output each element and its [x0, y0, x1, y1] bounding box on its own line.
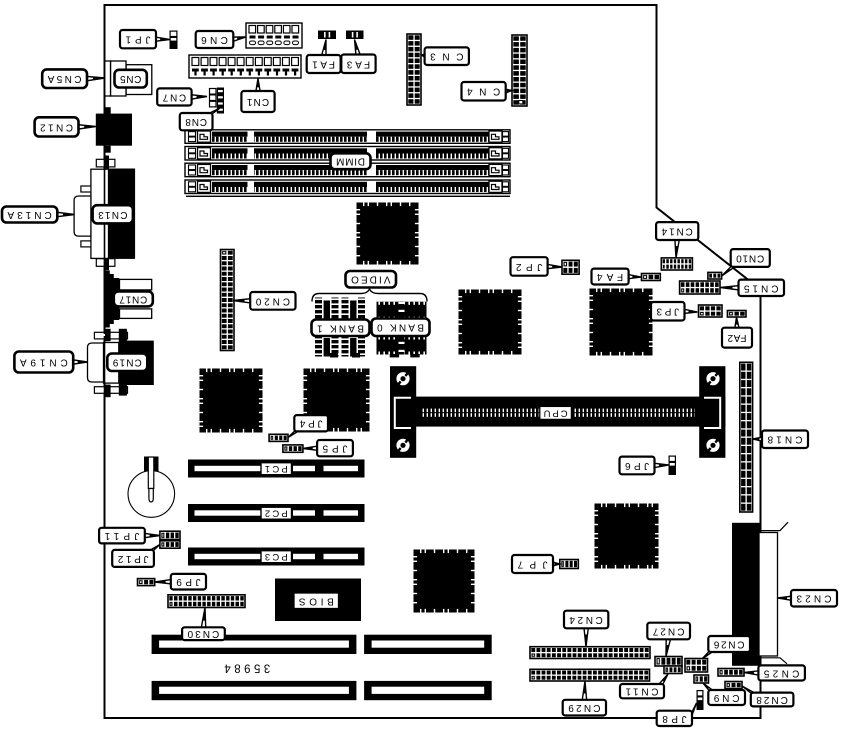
- connector CN3: [407, 34, 421, 105]
- label tag CN6: [196, 31, 246, 48]
- connector CN10: [708, 272, 722, 279]
- svg-text:CN9: CN9: [713, 692, 739, 703]
- svg-text:CN10: CN10: [736, 253, 765, 264]
- jumper JP6: [669, 456, 677, 476]
- label tag JP8: [657, 703, 697, 726]
- header JP7: [560, 560, 579, 569]
- fuse FA3: [346, 31, 364, 40]
- label tag FA2: [722, 317, 752, 348]
- label tag CN30: [182, 608, 225, 641]
- label tag CN3: [422, 47, 469, 65]
- svg-text:JP5: JP5: [322, 443, 347, 454]
- svg-text:DIMM: DIMM: [336, 156, 365, 167]
- connector CN1: [189, 55, 301, 78]
- label tag FA1: [307, 40, 341, 74]
- svg-text:CN30: CN30: [187, 628, 219, 639]
- ISA slot segment A2: [364, 635, 492, 654]
- svg-text:CPU: CPU: [543, 407, 567, 418]
- label tag CN27: [647, 623, 690, 657]
- connector CN29: [530, 669, 650, 681]
- svg-text:CN19A: CN19A: [20, 357, 68, 368]
- label tag CN19A: [14, 352, 87, 373]
- IC chip U2: [459, 290, 522, 355]
- svg-text:CN11: CN11: [625, 686, 658, 697]
- connector CN24: [530, 647, 650, 659]
- svg-text:CN17: CN17: [119, 293, 147, 304]
- label tag CN14: [656, 222, 698, 258]
- svg-text:JP9: JP9: [176, 576, 201, 587]
- label tag CN15: [721, 280, 785, 296]
- label tag DIMM: [331, 153, 371, 169]
- connector CN27: [655, 657, 682, 667]
- fuse FA4: [642, 274, 661, 281]
- label tag JP3: [651, 302, 697, 321]
- connector CN25: [718, 669, 744, 677]
- label tag CN10: [722, 249, 770, 276]
- CPU slot: [390, 366, 725, 458]
- header JP5 pins: [283, 445, 303, 452]
- memory chips BANK 1: [315, 298, 365, 357]
- svg-text:JP8: JP8: [662, 713, 687, 724]
- label tag CN18: [753, 431, 808, 449]
- connector CN14: [661, 258, 692, 270]
- jumper JP8: [697, 690, 704, 710]
- label tag CN13A: [2, 207, 75, 223]
- line under DIMM slots: [186, 196, 510, 197]
- connector CN30: [168, 595, 245, 608]
- label tag BANK 0: [372, 319, 430, 337]
- svg-text:PC2: PC2: [265, 508, 288, 519]
- svg-text:JP3: JP3: [656, 306, 679, 317]
- label tag CN23: [778, 590, 837, 607]
- label tag JP4: [288, 415, 328, 437]
- fuse FA1: [318, 31, 336, 40]
- bank1 chip feet: [330, 353, 338, 358]
- svg-text:FA2: FA2: [727, 332, 746, 343]
- header JP4 pins: [269, 434, 288, 441]
- connector CN20: [221, 250, 235, 351]
- svg-text:FA4: FA4: [597, 271, 624, 282]
- connector CN7/CN8: [210, 88, 225, 114]
- svg-text:CN24: CN24: [569, 614, 603, 625]
- label tag CN13: [93, 205, 133, 223]
- svg-text:JP4: JP4: [299, 418, 322, 429]
- svg-text:CN13: CN13: [98, 209, 128, 220]
- svg-text:CN14: CN14: [661, 226, 693, 237]
- svg-text:BIOS: BIOS: [298, 595, 333, 606]
- label tag CN7: [157, 88, 207, 105]
- svg-text:VIDEO: VIDEO: [351, 274, 391, 285]
- connector CN12: [96, 107, 132, 153]
- label tag CN17: [114, 291, 153, 306]
- label tag VIDEO: [346, 271, 397, 288]
- header JP11 pins: [160, 531, 180, 539]
- label tag CN25: [744, 665, 805, 680]
- label tag JP7: [512, 555, 560, 573]
- svg-text:CN26: CN26: [713, 639, 744, 650]
- label tag CN4: [462, 82, 513, 101]
- connector CN17: [104, 271, 151, 328]
- label tag JP11: [99, 528, 160, 544]
- label tag JP1: [120, 30, 170, 48]
- svg-text:FA3: FA3: [346, 58, 370, 69]
- brace under VIDEO label: [312, 289, 427, 302]
- connector CN28: [725, 682, 742, 689]
- svg-text:CN19: CN19: [112, 357, 141, 368]
- label tag JP5: [303, 440, 353, 456]
- svg-text:JP7: JP7: [517, 559, 547, 570]
- label tag CN29: [563, 681, 606, 716]
- IC chip U4: [200, 369, 263, 433]
- label tag CN19: [107, 354, 147, 372]
- PCI slot PC3: [188, 548, 365, 566]
- connector CN11: [664, 666, 682, 674]
- label tag CN8: [180, 108, 220, 130]
- connector CN15: [680, 281, 720, 294]
- label tag CN24: [564, 611, 608, 647]
- label tag CN5: [115, 70, 147, 88]
- svg-text:CN13A: CN13A: [7, 209, 52, 220]
- IC chip U6: [595, 504, 659, 569]
- svg-text:CN28: CN28: [756, 694, 788, 705]
- ISA slot segment B2: [364, 681, 492, 700]
- DIMM slot 2: [185, 147, 510, 161]
- header JP12 pins: [160, 541, 180, 548]
- connector CN5: [105, 61, 152, 96]
- PCI slot PC2: [188, 504, 365, 522]
- header JP3: [699, 305, 723, 317]
- label tag CN28: [742, 686, 793, 706]
- connector CN4: [512, 35, 527, 106]
- IC chip U1: [357, 203, 419, 265]
- label tag CN11: [620, 674, 668, 698]
- ISA slot segment B1: [152, 681, 357, 700]
- label tag JP6: [620, 457, 669, 475]
- label tag BANK 1: [312, 320, 370, 337]
- connector CN23: [732, 522, 788, 666]
- connector CN6: [246, 23, 302, 48]
- svg-text:JP6: JP6: [625, 460, 649, 471]
- svg-text:CN8: CN8: [185, 116, 207, 127]
- label tag CN26: [702, 636, 750, 659]
- label tag JP9: [155, 574, 206, 590]
- svg-text:CN3: CN3: [430, 51, 464, 62]
- label tag CN9: [703, 683, 745, 705]
- board outline: [105, 5, 761, 718]
- label tag JP2: [511, 257, 563, 276]
- svg-text:PC1: PC1: [265, 463, 288, 474]
- connector CN9: [694, 675, 709, 683]
- label tag CN20: [233, 292, 296, 310]
- svg-text:CN6: CN6: [201, 34, 228, 45]
- ISA slot segment A1: [152, 635, 357, 654]
- BIOS chip: [275, 579, 361, 622]
- svg-text:CN29: CN29: [568, 702, 601, 713]
- label tag FA4: [592, 269, 642, 285]
- battery: [128, 457, 175, 518]
- DIMM slot 1: [185, 130, 510, 144]
- svg-text:PC3: PC3: [265, 551, 288, 562]
- label tag CN12: [35, 117, 96, 136]
- label tag JP12: [112, 545, 160, 567]
- label tag CN5A: [42, 69, 105, 88]
- wire left board edge: [104, 158, 106, 400]
- svg-text:CN5: CN5: [120, 73, 142, 84]
- memory chips BANK 0: [377, 302, 427, 358]
- connector CN13: [74, 156, 135, 271]
- header JP2: [562, 260, 579, 274]
- connector CN19: [88, 329, 154, 397]
- connector CN18: [740, 362, 753, 512]
- svg-text:CN27: CN27: [652, 626, 684, 637]
- label tag FA3: [341, 40, 375, 74]
- svg-text:CN1: CN1: [246, 96, 269, 107]
- svg-text:CN12: CN12: [40, 121, 73, 132]
- IC chip U5: [304, 369, 370, 432]
- IC chip U7: [414, 550, 475, 613]
- jumper JP1: [170, 31, 178, 50]
- svg-text:CN4: CN4: [467, 86, 501, 97]
- header JP9 pins: [138, 579, 155, 586]
- IC chip U3: [590, 289, 653, 356]
- svg-text:CN7: CN7: [162, 92, 186, 103]
- svg-text:JP2: JP2: [516, 261, 543, 272]
- DIMM slot 3: [185, 163, 510, 177]
- label tag CN1: [241, 79, 274, 113]
- svg-text:FA1: FA1: [312, 59, 335, 70]
- svg-text:JP1: JP1: [125, 34, 150, 45]
- fuse FA2: [727, 311, 746, 318]
- connector CN26: [685, 659, 708, 673]
- svg-text:CN20: CN20: [255, 295, 290, 306]
- DIMM slot 4: [185, 180, 510, 194]
- PCI slot PC1: [188, 460, 365, 478]
